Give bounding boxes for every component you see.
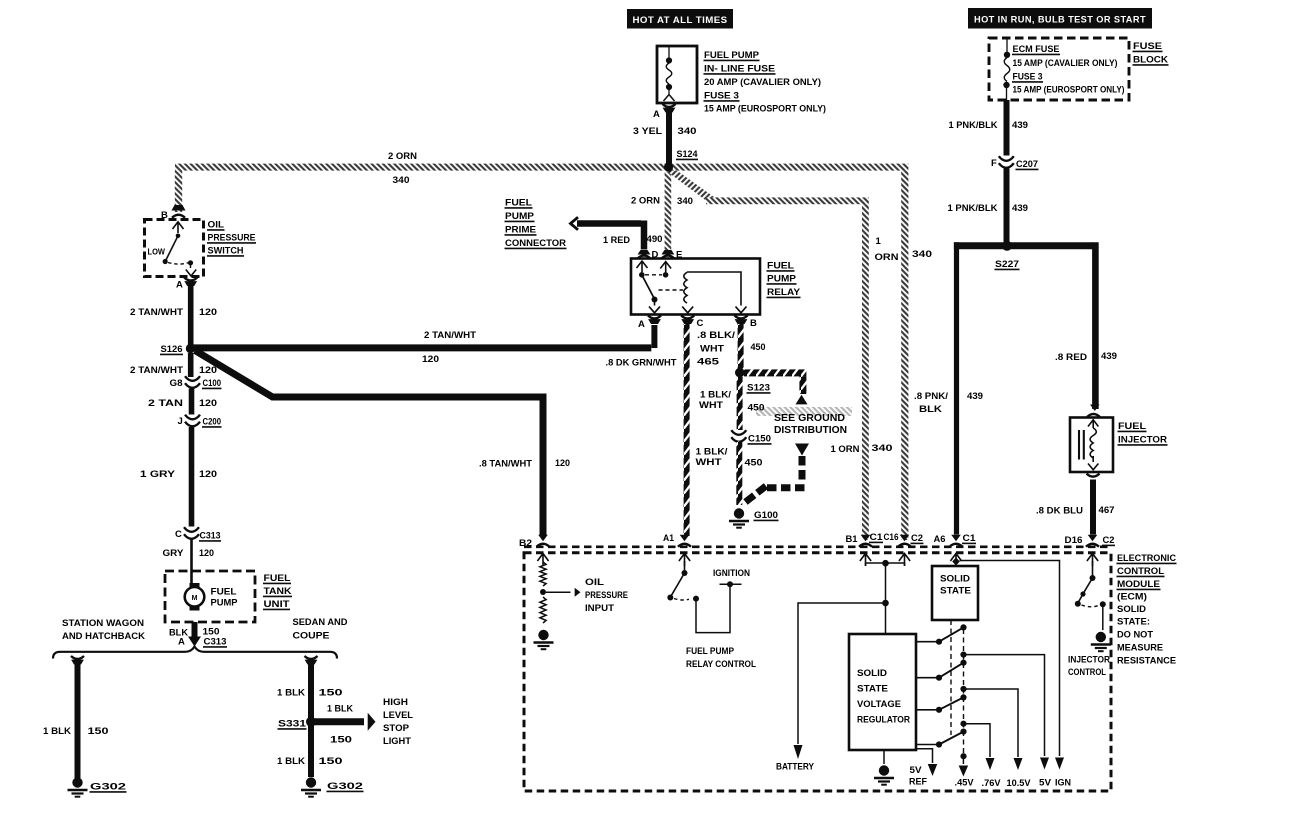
svg-text:HIGH: HIGH <box>383 697 408 708</box>
relay pin C terminal <box>681 316 694 319</box>
svg-text:BLK: BLK <box>919 404 942 415</box>
connector C313 <box>184 527 199 539</box>
svg-text:REF: REF <box>909 777 927 788</box>
svg-text:PUMP: PUMP <box>505 211 535 222</box>
banner: HOT IN RUN, BULB TEST OR START <box>968 8 1152 29</box>
wire GRY 120 (thin) <box>190 540 193 584</box>
svg-text:G302: G302 <box>327 781 363 792</box>
wire to G100 (dashed thick) <box>799 456 806 484</box>
relay pin A arrow <box>649 307 660 313</box>
svg-text:CONTROL: CONTROL <box>1117 566 1164 577</box>
svg-text:INPUT: INPUT <box>585 603 614 614</box>
wire 2 TAN/WHT 120 from S126 to relay pin A <box>193 344 651 351</box>
switch row 2 <box>916 677 936 679</box>
svg-text:150: 150 <box>319 688 343 699</box>
svg-text:FUSE 3: FUSE 3 <box>704 91 739 102</box>
ground G100 <box>729 508 749 527</box>
relay pin B arrow <box>736 307 747 313</box>
wire to battery <box>798 603 886 744</box>
svg-text:PRESSURE: PRESSURE <box>208 233 256 244</box>
svg-text:IN- LINE FUSE: IN- LINE FUSE <box>704 64 775 75</box>
wire .8 TAN/WHT 120 diagonal branch from S126 <box>195 351 543 537</box>
arrow: see ground distribution (up) <box>796 395 808 405</box>
ECM fuse element <box>1006 39 1008 52</box>
svg-text:INJECTOR: INJECTOR <box>1068 655 1110 666</box>
wire 1 RED 490 <box>577 220 641 227</box>
svg-text:STOP: STOP <box>383 723 410 734</box>
splice S331 <box>306 717 316 727</box>
svg-text:.45V: .45V <box>955 778 975 789</box>
svg-text:10.5V: 10.5V <box>1007 778 1032 789</box>
svg-text:G100: G100 <box>754 510 778 521</box>
arrow IGN <box>1055 758 1064 770</box>
arrow to pin A <box>186 270 196 277</box>
connector C200 <box>185 415 200 427</box>
svg-text:S123: S123 <box>747 383 770 394</box>
svg-text:1: 1 <box>876 236 882 247</box>
svg-text:.8 TAN/WHT: .8 TAN/WHT <box>479 459 532 470</box>
fuel pump relay control (A1 branch) <box>684 561 686 571</box>
svg-text:FUEL: FUEL <box>211 587 237 598</box>
svg-text:WHT: WHT <box>696 457 722 468</box>
svg-text:C16: C16 <box>884 532 899 543</box>
terminal B flare <box>172 205 186 211</box>
svg-text:439: 439 <box>1012 203 1028 214</box>
wire 450 to ground distribution (striped) <box>744 369 806 376</box>
ground (oil pressure input) <box>534 630 554 649</box>
svg-text:C100: C100 <box>203 378 222 389</box>
wire 1 ORN 340 right vertical to C16 <box>901 171 908 540</box>
relay linkage (dashed) <box>659 289 684 291</box>
svg-text:15 AMP (EUROSPORT ONLY): 15 AMP (EUROSPORT ONLY) <box>1013 85 1125 96</box>
svg-text:B: B <box>161 210 168 221</box>
svg-text:.76V: .76V <box>982 778 1002 789</box>
arrow 5V REF <box>928 764 938 776</box>
ground G302 (wagon) <box>68 777 88 796</box>
svg-text:1 GRY: 1 GRY <box>140 469 176 480</box>
svg-text:ELECTRONIC: ELECTRONIC <box>1117 553 1176 564</box>
svg-text:120: 120 <box>199 548 214 559</box>
ground (regulator) <box>874 765 894 784</box>
svg-text:1 BLK: 1 BLK <box>43 726 71 737</box>
svg-text:.8 DK BLU: .8 DK BLU <box>1036 506 1083 517</box>
svg-text:VOLTAGE: VOLTAGE <box>857 699 901 710</box>
svg-text:RELAY CONTROL: RELAY CONTROL <box>686 659 756 670</box>
svg-text:IGN: IGN <box>1055 778 1071 789</box>
dashed link from solid state box <box>950 620 952 735</box>
svg-text:WHT: WHT <box>699 400 723 411</box>
svg-text:S124: S124 <box>677 149 699 160</box>
wire 3 YEL 340 <box>666 109 672 164</box>
svg-text:150: 150 <box>319 756 343 767</box>
wire 1 BLK/WHT 450 (C150 to G100) <box>736 442 742 506</box>
svg-text:D16: D16 <box>1065 535 1083 546</box>
wire 1 GRY 120 <box>189 427 195 527</box>
svg-text:OIL: OIL <box>585 577 604 588</box>
svg-text:340: 340 <box>872 443 893 454</box>
wire 2 ORN drop to oil pressure switch B <box>175 171 182 212</box>
oil pressure input (B2 branch) <box>540 562 546 586</box>
arrow: battery <box>794 745 803 759</box>
terminal A below fuse box <box>663 104 676 107</box>
svg-text:AND HATCHBACK: AND HATCHBACK <box>62 631 145 642</box>
svg-text:FUEL: FUEL <box>264 573 291 584</box>
wire 1 PNK/BLK 439 (upper) <box>1004 100 1010 156</box>
svg-text:LOW: LOW <box>148 247 166 257</box>
svg-text:SWITCH: SWITCH <box>208 246 244 257</box>
svg-text:467: 467 <box>1099 505 1115 516</box>
svg-text:1 PNK/BLK: 1 PNK/BLK <box>948 203 998 214</box>
svg-text:150: 150 <box>330 735 352 746</box>
wire .8 DK BLU 467 <box>1090 480 1096 535</box>
svg-text:439: 439 <box>967 391 983 402</box>
svg-text:A6: A6 <box>934 534 946 545</box>
svg-text:490: 490 <box>647 234 663 245</box>
svg-text:C2: C2 <box>911 533 923 544</box>
contact dot <box>960 721 966 727</box>
svg-text:PRESSURE: PRESSURE <box>585 590 628 601</box>
svg-text:3 YEL: 3 YEL <box>633 126 662 137</box>
banner: HOT AT ALL TIMES <box>627 9 733 29</box>
relay coil <box>684 272 687 303</box>
svg-text:.8 BLK/: .8 BLK/ <box>697 330 735 341</box>
svg-text:F: F <box>991 158 997 169</box>
svg-text:MODULE: MODULE <box>1117 579 1160 590</box>
dashed contact chain <box>963 629 965 754</box>
svg-text:SEDAN AND: SEDAN AND <box>293 617 348 628</box>
svg-text:120: 120 <box>199 398 217 409</box>
wire .8 PNK/BLK 439 down to A6 <box>954 242 959 534</box>
wire 1 ORN horizontal <box>706 197 869 204</box>
ignition T-bar <box>720 583 742 585</box>
svg-text:C313: C313 <box>200 531 221 542</box>
svg-text:UNIT: UNIT <box>264 599 290 610</box>
arrow .76V <box>986 758 995 770</box>
svg-text:STATE:: STATE: <box>1117 617 1150 628</box>
wire 2 TAN/WHT 120 <box>188 285 194 345</box>
svg-text:IGNITION: IGNITION <box>713 568 750 579</box>
svg-text:A: A <box>653 109 660 120</box>
injector coil + valve bars <box>1088 420 1098 428</box>
svg-text:FUEL: FUEL <box>505 198 532 209</box>
terminal: sedan branch <box>305 656 318 659</box>
svg-text:B2: B2 <box>519 538 532 549</box>
svg-text:S331: S331 <box>278 719 307 730</box>
wire BLK 150 with arrow to C313 pin A <box>192 622 198 637</box>
oil pressure switch (dashed box) <box>145 220 204 277</box>
svg-text:PRIME: PRIME <box>505 225 536 236</box>
svg-text:A: A <box>638 319 645 330</box>
switch row 4 <box>916 744 936 746</box>
svg-text:S126: S126 <box>161 344 183 355</box>
wire 1 BLK/WHT 450 (S123 to C150) <box>737 377 743 430</box>
svg-text:2 TAN/WHT: 2 TAN/WHT <box>130 307 183 318</box>
svg-text:340: 340 <box>678 126 697 137</box>
svg-text:ORN: ORN <box>875 252 899 263</box>
svg-text:450: 450 <box>751 342 766 353</box>
ECM pin A6 <box>951 535 961 541</box>
svg-text:15 AMP (EUROSPORT ONLY): 15 AMP (EUROSPORT ONLY) <box>704 104 826 115</box>
svg-text:1 BLK: 1 BLK <box>277 756 305 767</box>
A6 diamond <box>952 558 960 566</box>
svg-text:2 ORN: 2 ORN <box>631 196 660 207</box>
svg-text:2 TAN: 2 TAN <box>148 398 183 409</box>
svg-text:A: A <box>178 637 185 648</box>
terminal A below switch box <box>184 278 197 281</box>
wire from S227 (horizontal) <box>954 242 1093 249</box>
ECM pin B2 <box>538 535 548 541</box>
wire 1 BLK 150 (sedan upper) <box>308 663 314 777</box>
wire 1 BLK 150 to stop light <box>314 718 364 725</box>
svg-text:15 AMP (CAVALIER ONLY): 15 AMP (CAVALIER ONLY) <box>1013 58 1118 69</box>
ECM box (dashed) <box>524 553 1111 791</box>
svg-text:C207: C207 <box>1016 159 1038 170</box>
svg-text:LIGHT: LIGHT <box>383 736 411 747</box>
svg-text:REGULATOR: REGULATOR <box>857 715 910 726</box>
svg-text:1 RED: 1 RED <box>603 235 630 246</box>
switch contacts inside <box>173 222 184 233</box>
ECM pin B1 <box>861 535 871 541</box>
connector C150 <box>731 430 746 442</box>
injector top wire arrow <box>1090 405 1100 412</box>
contact dot <box>960 652 966 658</box>
svg-text:465: 465 <box>697 357 720 368</box>
svg-text:J: J <box>178 416 183 427</box>
svg-text:HOT AT ALL TIMES: HOT AT ALL TIMES <box>633 15 728 25</box>
svg-text:DO NOT: DO NOT <box>1117 630 1153 641</box>
wire to .45V arrow <box>962 756 964 764</box>
svg-text:FUSE: FUSE <box>1133 41 1162 52</box>
svg-text:STATION WAGON: STATION WAGON <box>62 618 144 629</box>
svg-text:1 BLK/: 1 BLK/ <box>696 447 728 458</box>
svg-text:1 PNK/BLK: 1 PNK/BLK <box>949 120 998 131</box>
svg-text:1 ORN: 1 ORN <box>831 444 860 455</box>
svg-text:B: B <box>750 318 757 329</box>
svg-text:120: 120 <box>422 354 439 365</box>
svg-text:(ECM): (ECM) <box>1117 592 1147 603</box>
svg-text:340: 340 <box>393 175 410 186</box>
battery feed (B1 / C16) <box>866 563 905 566</box>
svg-text:MEASURE: MEASURE <box>1117 643 1163 654</box>
arrow: oil pressure input <box>575 588 581 597</box>
wire 2 ORN 340 drop from S124 to relay E <box>665 172 672 250</box>
svg-text:1 BLK/: 1 BLK/ <box>700 390 731 401</box>
wire 1 BLK 150 (wagon) <box>75 663 81 778</box>
wire 2 TAN/WHT 120 below S126 <box>188 353 194 377</box>
svg-text:G8: G8 <box>170 378 183 389</box>
svg-text:CONTROL: CONTROL <box>1068 667 1106 678</box>
ECM pin D16 <box>1088 535 1098 541</box>
svg-text:RESISTANCE: RESISTANCE <box>1117 656 1176 667</box>
svg-text:M: M <box>192 595 198 602</box>
svg-text:2 ORN: 2 ORN <box>388 151 417 162</box>
arrow: from ground distribution (down) <box>795 444 809 456</box>
svg-text:SOLID: SOLID <box>1117 604 1146 615</box>
svg-text:G302: G302 <box>90 782 126 793</box>
contact dot <box>960 753 966 759</box>
splice S124 <box>664 162 673 171</box>
svg-text:150: 150 <box>88 726 109 737</box>
ECM pin C16 <box>900 535 910 541</box>
splice S227 <box>1002 241 1012 251</box>
arrow 10.5V <box>1014 758 1023 770</box>
svg-text:C: C <box>697 318 704 329</box>
wire to 10.5V arrow <box>964 689 1019 757</box>
svg-text:STATE: STATE <box>857 684 888 695</box>
ECM pin A1 <box>680 535 690 541</box>
splice S123 <box>735 368 745 378</box>
fuel pump relay box <box>631 259 760 315</box>
wire 1 ORN diagonal from S124 <box>666 171 715 203</box>
svg-text:BATTERY: BATTERY <box>776 762 815 773</box>
wire 1 PNK/BLK 439 (lower) <box>1004 169 1010 244</box>
svg-text:OIL: OIL <box>208 220 225 231</box>
connector C100 <box>185 376 200 388</box>
svg-text:FUEL: FUEL <box>1118 421 1146 432</box>
svg-text:5V: 5V <box>910 765 923 776</box>
svg-text:C200: C200 <box>203 417 222 428</box>
svg-text:C2: C2 <box>1103 535 1115 546</box>
switch row 1 <box>916 641 936 643</box>
svg-text:BLOCK: BLOCK <box>1133 55 1168 66</box>
svg-text:FUEL PUMP: FUEL PUMP <box>704 50 760 61</box>
svg-text:SEE GROUND: SEE GROUND <box>774 413 845 424</box>
svg-text:C: C <box>175 529 182 540</box>
svg-text:2 TAN/WHT: 2 TAN/WHT <box>130 365 183 376</box>
splice S124 (over hatch) <box>664 162 673 171</box>
prime connector terminal <box>571 217 579 230</box>
injector top terminal arc <box>1087 414 1100 417</box>
injector bottom terminal arc <box>1087 474 1100 477</box>
arrow .45V <box>959 766 969 777</box>
fuel pump motor M <box>190 583 200 588</box>
svg-text:450: 450 <box>748 403 765 414</box>
fuse pin A arrow <box>664 95 675 102</box>
fuse block (dashed box) <box>989 38 1129 100</box>
relay pin B terminal <box>735 316 748 319</box>
ground (injector control) <box>1091 632 1111 651</box>
arrow 5V <box>1040 758 1049 770</box>
svg-text:FUEL PUMP: FUEL PUMP <box>686 646 735 657</box>
arrow to high level stop light <box>368 713 376 731</box>
svg-text:DISTRIBUTION: DISTRIBUTION <box>774 425 847 436</box>
svg-text:.8 DK GRN/WHT: .8 DK GRN/WHT <box>606 358 677 369</box>
svg-text:A: A <box>176 280 183 291</box>
relay pin D terminal <box>638 250 651 255</box>
wire to 5V arrow <box>964 655 1045 756</box>
svg-text:C1: C1 <box>870 532 884 543</box>
wire 2 ORN 340 horizontal <box>175 164 908 171</box>
svg-text:ECM FUSE: ECM FUSE <box>1013 44 1060 55</box>
svg-text:LEVEL: LEVEL <box>383 710 413 721</box>
fuse element symbol <box>668 47 670 58</box>
svg-text:S227: S227 <box>995 259 1019 270</box>
solid state voltage regulator <box>849 634 916 750</box>
svg-text:COUPE: COUPE <box>293 631 330 642</box>
svg-text:120: 120 <box>199 307 217 318</box>
ground G302 (sedan) <box>301 777 321 796</box>
relay pin C arrow <box>682 307 693 313</box>
svg-text:5V: 5V <box>1039 778 1052 789</box>
wire 2 TAN 120 <box>189 389 195 415</box>
wire to .76V arrow <box>964 724 991 757</box>
svg-text:WHT: WHT <box>700 344 724 355</box>
svg-text:PUMP: PUMP <box>211 598 239 609</box>
svg-text:FUEL: FUEL <box>767 261 794 272</box>
svg-text:.8 PNK/: .8 PNK/ <box>914 391 948 402</box>
wire .8 RED 439 down to injector <box>1092 242 1099 409</box>
svg-text:TANK: TANK <box>264 586 292 597</box>
svg-text:FUSE 3: FUSE 3 <box>1013 72 1043 83</box>
connector C207 <box>999 156 1014 168</box>
svg-text:B1: B1 <box>846 534 859 545</box>
relay pin E terminal <box>662 250 675 255</box>
fuel injector box <box>1070 418 1113 473</box>
split brace: station wagon / sedan <box>53 647 337 659</box>
relay switch contacts <box>637 261 648 272</box>
svg-text:SOLID: SOLID <box>940 574 970 585</box>
svg-text:120: 120 <box>199 469 217 480</box>
svg-text:1 BLK: 1 BLK <box>327 704 353 715</box>
svg-text:340: 340 <box>677 196 693 207</box>
svg-text:C313: C313 <box>204 637 227 648</box>
wire to IGN <box>960 561 1060 757</box>
svg-text:C1: C1 <box>963 533 977 544</box>
fuse: fuel pump in-line fuse box <box>657 46 697 103</box>
wire 450 (relay B down) <box>738 324 744 369</box>
svg-text:.8 RED: .8 RED <box>1055 352 1087 363</box>
svg-text:PUMP: PUMP <box>767 274 797 285</box>
svg-text:1 BLK: 1 BLK <box>277 688 305 699</box>
wire .8 BLK/WHT 465 / 1 BLK/WHT (relay C to ECM A1) <box>684 324 690 536</box>
svg-text:SOLID: SOLID <box>857 668 887 679</box>
svg-text:RELAY: RELAY <box>767 287 801 298</box>
svg-text:439: 439 <box>1101 351 1117 362</box>
svg-text:120: 120 <box>555 458 570 469</box>
svg-text:INJECTOR: INJECTOR <box>1118 435 1167 446</box>
svg-text:CONNECTOR: CONNECTOR <box>505 238 566 249</box>
svg-text:450: 450 <box>745 458 763 469</box>
svg-text:HOT IN RUN, BULB TEST OR START: HOT IN RUN, BULB TEST OR START <box>974 15 1146 25</box>
relay pin A terminal <box>648 316 661 319</box>
svg-text:120: 120 <box>199 365 217 376</box>
contact dot <box>960 686 966 692</box>
svg-text:STATE: STATE <box>940 586 971 597</box>
svg-text:340: 340 <box>912 249 932 260</box>
wire 1 ORN 340 left vertical to B1 <box>862 204 869 540</box>
svg-text:2 TAN/WHT: 2 TAN/WHT <box>424 330 476 341</box>
splice S126 <box>186 344 195 353</box>
svg-text:C150: C150 <box>748 434 771 445</box>
fuel tank unit (dashed box) <box>165 571 255 622</box>
svg-text:A1: A1 <box>663 533 675 544</box>
svg-text:GRY: GRY <box>163 548 185 559</box>
terminal: station wagon branch <box>71 656 84 659</box>
switch row 3 <box>916 709 936 711</box>
injector control (D16 branch) <box>1092 561 1094 576</box>
svg-text:439: 439 <box>1012 120 1028 131</box>
wire 5V REF <box>916 749 933 763</box>
svg-text:20 AMP (CAVALIER ONLY): 20 AMP (CAVALIER ONLY) <box>704 77 821 88</box>
